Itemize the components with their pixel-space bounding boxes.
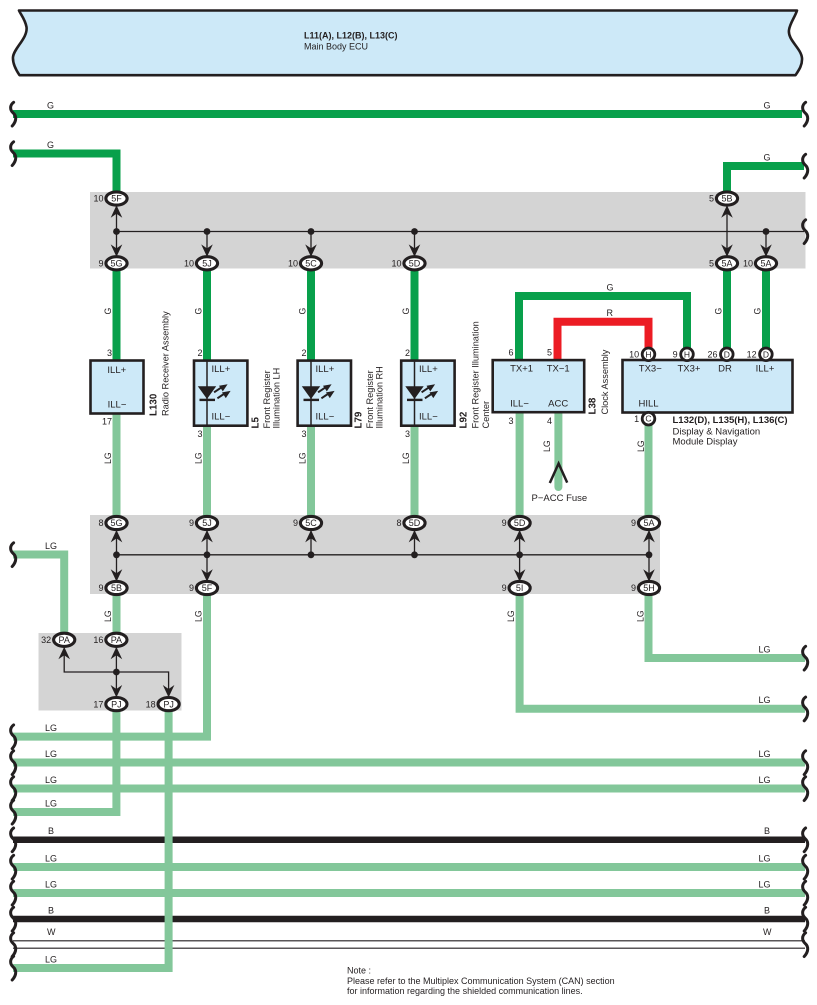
svg-text:LG: LG	[759, 775, 771, 785]
wire B bus row8	[13, 916, 805, 923]
svg-text:G: G	[194, 308, 204, 315]
svg-text:DR: DR	[718, 363, 732, 374]
svg-text:G: G	[714, 308, 724, 315]
wire G 5J to L5	[203, 263, 211, 361]
svg-text:9: 9	[631, 583, 636, 593]
svg-text:9: 9	[673, 350, 678, 360]
svg-text:B: B	[48, 905, 54, 915]
svg-text:G: G	[753, 308, 763, 315]
svg-text:5A: 5A	[721, 259, 732, 269]
svg-text:R: R	[607, 308, 614, 318]
svg-text:L79: L79	[354, 411, 365, 428]
svg-text:ILL−: ILL−	[212, 412, 231, 423]
svg-text:ILL+: ILL+	[756, 363, 775, 374]
svg-text:26: 26	[707, 350, 717, 360]
break symbols left	[11, 102, 16, 126]
wire G bus (top)	[13, 110, 802, 118]
svg-text:for information regarding the: for information regarding the shielded c…	[347, 986, 583, 996]
svg-text:12: 12	[747, 350, 757, 360]
svg-text:9: 9	[189, 518, 194, 528]
wire G TX+1 to TX3+	[519, 296, 687, 361]
connector 5G band2	[98, 516, 127, 529]
svg-text:5D: 5D	[514, 518, 526, 528]
svg-text:LG: LG	[506, 610, 516, 622]
svg-text:5D: 5D	[409, 518, 421, 528]
note text	[347, 966, 615, 996]
svg-text:5C: 5C	[305, 259, 317, 269]
svg-text:L38: L38	[588, 397, 599, 414]
wire LG L38 ILL- to band2 5D	[516, 412, 524, 523]
connector PJ-17	[93, 698, 127, 711]
junction band 2	[90, 515, 660, 594]
wire LG ACC to P-ACC fuse	[554, 412, 562, 487]
svg-text:3: 3	[405, 429, 410, 439]
svg-text:LG: LG	[103, 610, 113, 622]
wire LG L130 to band2 5G	[113, 414, 121, 524]
svg-text:PA: PA	[111, 635, 122, 645]
svg-text:Module Display: Module Display	[673, 437, 738, 448]
svg-text:LG: LG	[759, 879, 771, 889]
svg-text:B: B	[764, 905, 770, 915]
svg-text:PA: PA	[59, 635, 70, 645]
svg-text:5J: 5J	[202, 259, 212, 269]
wire LG PJ-18 down-left	[13, 704, 169, 968]
wire LG bus row2	[13, 759, 805, 767]
svg-text:TX−1: TX−1	[547, 363, 570, 374]
svg-text:9: 9	[189, 583, 194, 593]
junction band 3 (PA/PJ)	[39, 633, 182, 711]
svg-text:2: 2	[301, 348, 306, 358]
svg-text:LG: LG	[45, 853, 57, 863]
connector 5D band1	[391, 257, 425, 270]
svg-text:H: H	[684, 349, 690, 359]
svg-text:5: 5	[547, 348, 552, 358]
svg-text:9: 9	[631, 518, 636, 528]
svg-text:3: 3	[197, 429, 202, 439]
band3 arrows	[58, 647, 70, 659]
svg-text:9: 9	[293, 518, 298, 528]
svg-text:LG: LG	[45, 541, 57, 551]
svg-text:10: 10	[743, 259, 753, 269]
svg-text:G: G	[401, 308, 411, 315]
wire G 5C to L79	[307, 263, 315, 361]
svg-text:LG: LG	[759, 695, 771, 705]
connector 5J band2	[189, 516, 218, 529]
connector 5A band1 right	[743, 257, 777, 270]
svg-text:9: 9	[98, 583, 103, 593]
svg-text:PJ: PJ	[163, 699, 174, 709]
pin 12 (D) ILL+	[747, 348, 773, 361]
connector 5F band1	[93, 192, 127, 205]
svg-text:G: G	[764, 152, 771, 162]
P-ACC fuse symbol	[550, 464, 567, 484]
svg-text:Illumination RH: Illumination RH	[375, 366, 385, 428]
svg-text:TX3−: TX3−	[639, 363, 662, 374]
svg-text:LG: LG	[45, 775, 57, 785]
component L79 Front Register Illumination RH (LED)	[298, 348, 351, 439]
pin 10 (H) TX3-	[629, 348, 655, 361]
wire LG 5H down-right	[649, 588, 806, 658]
component L92 Front Register Illumination Center (LED)	[401, 348, 454, 439]
svg-text:Center: Center	[481, 401, 491, 429]
wire LG left to PA-32	[13, 555, 64, 641]
svg-text:LG: LG	[401, 452, 411, 464]
svg-text:C: C	[645, 414, 651, 424]
svg-text:10: 10	[184, 259, 194, 269]
svg-text:B: B	[764, 826, 770, 836]
connector 5D band2 right	[502, 516, 531, 529]
wire G 5D to L92	[411, 263, 419, 361]
svg-text:2: 2	[405, 348, 410, 358]
svg-text:LG: LG	[45, 798, 57, 808]
svg-text:G: G	[298, 308, 308, 315]
connector 5F band2	[189, 581, 218, 594]
wire LG L79 to band2 5C	[307, 426, 315, 523]
svg-text:Illumination LH: Illumination LH	[272, 368, 282, 429]
component L5 Front Register Illumination LH (LED)	[194, 348, 247, 439]
svg-text:PJ: PJ	[111, 699, 122, 709]
band1 column stubs	[117, 205, 767, 257]
svg-text:ILL−: ILL−	[419, 412, 438, 423]
svg-text:Main Body ECU: Main Body ECU	[304, 42, 368, 52]
svg-text:TX3+: TX3+	[678, 363, 701, 374]
component L38 Clock Assembly	[493, 348, 585, 427]
svg-text:5G: 5G	[110, 259, 122, 269]
svg-text:ILL+: ILL+	[419, 364, 438, 375]
svg-text:5G: 5G	[110, 518, 122, 528]
svg-text:18: 18	[146, 699, 156, 709]
svg-text:32: 32	[41, 635, 51, 645]
band2 column stubs	[117, 530, 650, 582]
svg-text:LG: LG	[45, 723, 57, 733]
svg-text:Radio Receiver Assembly: Radio Receiver Assembly	[161, 311, 171, 416]
svg-text:5F: 5F	[111, 194, 122, 204]
wire LG bus row7	[13, 889, 805, 897]
svg-text:LG: LG	[194, 452, 204, 464]
svg-text:G: G	[103, 308, 113, 315]
wire G 5A to DR	[723, 263, 731, 351]
svg-text:3: 3	[508, 416, 513, 426]
band2 junction dots	[113, 551, 120, 558]
svg-text:5H: 5H	[643, 583, 655, 593]
svg-text:LG: LG	[45, 954, 57, 964]
svg-text:ILL+: ILL+	[316, 364, 335, 375]
svg-text:17: 17	[93, 699, 103, 709]
wire LG 5B to PA-16	[113, 588, 121, 640]
svg-text:8: 8	[396, 518, 401, 528]
band1 junction dots	[113, 228, 120, 235]
svg-text:W: W	[763, 927, 772, 937]
svg-text:5C: 5C	[305, 518, 317, 528]
svg-text:ILL−: ILL−	[316, 412, 335, 423]
svg-text:9: 9	[502, 518, 507, 528]
svg-text:LG: LG	[759, 853, 771, 863]
svg-text:LG: LG	[298, 452, 308, 464]
svg-text:G: G	[47, 140, 54, 150]
connector 5J band1	[184, 257, 218, 270]
svg-text:10: 10	[629, 350, 639, 360]
svg-text:G: G	[47, 100, 54, 110]
connector 5D band2 left	[396, 516, 425, 529]
svg-text:6: 6	[508, 348, 513, 358]
svg-text:D: D	[724, 349, 730, 359]
connector 5A band2	[631, 516, 660, 529]
svg-text:3: 3	[301, 429, 306, 439]
svg-text:2: 2	[197, 348, 202, 358]
wire LG L92 to band2 5D	[411, 426, 419, 523]
svg-text:LG: LG	[759, 749, 771, 759]
svg-text:5: 5	[709, 194, 714, 204]
svg-text:10: 10	[93, 194, 103, 204]
band1 bus line	[117, 231, 805, 233]
connector 5I band2	[502, 581, 531, 594]
svg-text:5D: 5D	[409, 259, 421, 269]
svg-text:10: 10	[391, 259, 401, 269]
svg-text:B: B	[48, 826, 54, 836]
wire G to 5B	[727, 166, 804, 199]
band3 link lines	[64, 647, 168, 698]
svg-text:L5: L5	[250, 417, 261, 429]
pin 1 (C) HILL	[634, 412, 655, 425]
svg-text:16: 16	[93, 635, 103, 645]
band2 bus line	[117, 554, 650, 556]
wire G to 5F	[13, 154, 117, 200]
svg-text:L130: L130	[149, 393, 160, 416]
svg-text:LG: LG	[103, 452, 113, 464]
junction band 1	[90, 192, 806, 269]
svg-text:Front Register: Front Register	[365, 370, 375, 428]
svg-text:ILL+: ILL+	[212, 364, 231, 375]
svg-text:Note :: Note :	[347, 966, 371, 976]
connector PA-16	[93, 633, 127, 646]
svg-text:ACC: ACC	[548, 398, 568, 409]
svg-text:LG: LG	[194, 610, 204, 622]
wire R TX-1 to TX3-	[558, 322, 649, 361]
wire G 5G to L130	[113, 263, 121, 361]
svg-text:9: 9	[98, 259, 103, 269]
svg-text:5B: 5B	[111, 583, 122, 593]
wire W bus row9	[13, 941, 805, 948]
svg-text:L11(A), L12(B), L13(C): L11(A), L12(B), L13(C)	[304, 31, 398, 41]
wire LG bus row6	[13, 863, 805, 871]
band1 arrows	[111, 205, 123, 217]
svg-text:5B: 5B	[721, 194, 732, 204]
svg-text:LG: LG	[759, 644, 771, 654]
svg-text:LG: LG	[636, 610, 646, 622]
Main Body ECU banner	[13, 11, 802, 76]
svg-text:10: 10	[288, 259, 298, 269]
svg-text:L132(D), L135(H), L136(C): L132(D), L135(H), L136(C)	[673, 415, 788, 426]
svg-text:1: 1	[634, 414, 639, 424]
band3 junction dot	[113, 669, 120, 676]
connector 5B band2	[98, 581, 127, 594]
connector 5H band2	[631, 581, 660, 594]
svg-text:Front Register Illumination: Front Register Illumination	[471, 321, 481, 428]
wire LG L5 to band2 5J	[203, 426, 211, 523]
svg-text:LG: LG	[45, 879, 57, 889]
connector 5A band1 left	[709, 257, 738, 270]
svg-text:G: G	[764, 100, 771, 110]
svg-text:8: 8	[98, 518, 103, 528]
svg-text:TX+1: TX+1	[510, 363, 533, 374]
wire LG bus row3	[13, 785, 805, 793]
svg-text:HILL: HILL	[639, 399, 659, 410]
wire LG PJ-17 down-left	[13, 704, 116, 812]
svg-text:W: W	[47, 927, 56, 937]
svg-text:LG: LG	[45, 749, 57, 759]
svg-text:ILL+: ILL+	[107, 365, 126, 376]
wire LG 5F down-left	[13, 588, 207, 737]
wire LG HILL to band2 5A	[645, 423, 653, 523]
svg-text:3: 3	[107, 348, 112, 358]
svg-text:LG: LG	[542, 440, 552, 452]
connector PJ-18	[146, 698, 180, 711]
svg-text:P−ACC Fuse: P−ACC Fuse	[532, 493, 588, 504]
svg-text:5A: 5A	[760, 259, 771, 269]
svg-text:9: 9	[502, 583, 507, 593]
connector PA-32	[41, 633, 75, 646]
svg-text:H: H	[645, 349, 651, 359]
label L132 names	[673, 415, 788, 448]
pin 9 (H) TX3+	[673, 348, 694, 361]
svg-text:17: 17	[102, 417, 112, 427]
connector 5B band1	[709, 192, 738, 205]
svg-text:ILL−: ILL−	[108, 399, 127, 410]
wire B bus row5	[13, 836, 805, 843]
svg-text:Clock Assembly: Clock Assembly	[600, 349, 610, 414]
connector 5C band2	[293, 516, 322, 529]
component L132/L135/L136 Display &amp; Navigation Module Display	[623, 360, 793, 413]
svg-text:D: D	[763, 349, 769, 359]
svg-text:L92: L92	[459, 411, 470, 428]
svg-text:Front Register: Front Register	[262, 370, 272, 428]
connector 5C band1	[288, 257, 322, 270]
wire LG 5I down-right	[520, 588, 805, 709]
svg-text:5J: 5J	[202, 518, 212, 528]
wire G 5A to ILL+	[762, 263, 770, 351]
svg-text:ILL−: ILL−	[510, 398, 529, 409]
svg-text:G: G	[607, 283, 614, 293]
svg-text:Please refer to the Multiplex: Please refer to the Multiplex Communicat…	[347, 976, 615, 986]
svg-text:4: 4	[547, 416, 552, 426]
svg-text:5: 5	[709, 259, 714, 269]
svg-text:5F: 5F	[202, 583, 213, 593]
break symbols right	[803, 102, 808, 126]
svg-text:5I: 5I	[516, 583, 524, 593]
svg-text:5A: 5A	[643, 518, 654, 528]
svg-text:LG: LG	[636, 440, 646, 452]
connector 5G band1	[98, 257, 127, 270]
pin 26 (D) DR	[707, 348, 733, 361]
component L130 Radio Receiver Assembly	[91, 348, 144, 427]
band2 arrows	[111, 530, 123, 542]
